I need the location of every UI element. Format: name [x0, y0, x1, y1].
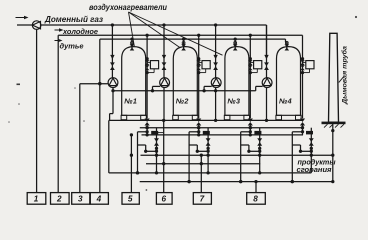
- svg-text:8: 8: [253, 195, 258, 204]
- wire: bypass elbow A heater 4: [292, 130, 304, 133]
- flow arrow into blast furnace gas line: [16, 16, 29, 20]
- dome valve heater 3: [233, 42, 238, 51]
- svg-text:2: 2: [56, 195, 62, 204]
- wire: foot pipe to headers heater 3: [249, 126, 252, 135]
- junction block heater 4: [306, 131, 313, 135]
- wire: fan suction riser: [153, 86, 161, 90]
- wire: fan 1 discharge down pipe: [111, 87, 114, 113]
- svg-text:6: 6: [161, 195, 166, 204]
- bypass drive box heater 1: [147, 61, 158, 73]
- label vozdukhonagrevateli (air heaters): [89, 3, 167, 12]
- wire: bypass elbow B heater 3: [239, 132, 242, 183]
- wire: bypass elbow C heater 2: [189, 144, 197, 146]
- svg-text:4: 4: [96, 195, 102, 204]
- svg-text:Доменный газ: Доменный газ: [44, 15, 103, 24]
- svg-text:дутье: дутье: [60, 42, 84, 51]
- wire: dome pipe heater 3: [234, 39, 236, 48]
- label №2: [175, 97, 189, 106]
- position box 1: [27, 193, 46, 205]
- wire: chimney downcomer: [331, 124, 334, 181]
- wire: hot-blast side pipe heater 1: [145, 35, 148, 118]
- wire: bypass elbow C heater 4: [292, 144, 300, 146]
- wire: header M5: [109, 171, 311, 174]
- flow arrowhead gas heater 3: [213, 55, 217, 60]
- svg-text:сгорания: сгорания: [297, 165, 333, 174]
- bypass drive box heater 3: [250, 61, 262, 73]
- leader lines from air-heaters label: [129, 12, 223, 55]
- junction block heater 1: [151, 131, 158, 135]
- wire: stub to box6 riser: [157, 132, 164, 134]
- flow arrow blast: [55, 39, 63, 43]
- wire: bypass elbow A heater 1: [138, 130, 149, 133]
- wire: gas main L1: [41, 23, 267, 26]
- flow arrowhead gas heater 2: [162, 55, 166, 60]
- wire: combustion air manifold: [113, 89, 256, 92]
- position box 3: [72, 193, 90, 205]
- smoke shutoff valve under heater 2: [196, 119, 201, 126]
- position box 7: [193, 193, 211, 205]
- smoke valve heater 1: [154, 138, 159, 145]
- flow arrow cold blast: [55, 28, 64, 32]
- wire: fan 1 suction line: [80, 82, 108, 85]
- wire: header M4: [146, 162, 260, 165]
- svg-text:№4: №4: [278, 97, 292, 106]
- wire: gas drop pipe heater 4: [266, 25, 268, 78]
- position box 5: [122, 193, 139, 205]
- wire: L3 elbow down to heater 4 dome valve: [285, 39, 287, 42]
- wire: bypass elbow D heater 3: [247, 145, 250, 153]
- wire: header M6: [140, 180, 335, 183]
- wire: fan 1 discharge jog: [110, 114, 113, 121]
- wire: smoke valve pipe heater 4: [310, 128, 313, 173]
- label Dymovaya truba (chimney): [341, 46, 349, 105]
- wire: dome pipe heater 4: [286, 42, 288, 48]
- chimney foundation: [322, 122, 346, 128]
- svg-text:5: 5: [128, 195, 133, 204]
- wire: bypass elbow D heater 1: [144, 145, 147, 153]
- label №1: [123, 97, 137, 106]
- svg-text:7: 7: [200, 195, 205, 204]
- position box 6: [156, 193, 172, 205]
- wire: left loop drop: [108, 120, 110, 172]
- position box 2: [51, 193, 70, 205]
- svg-text:3: 3: [78, 195, 83, 204]
- shutoff valves on side pipe heater 2: [196, 60, 201, 70]
- wire: bypass elbow D heater 2: [196, 145, 199, 153]
- label Domenny gaz (blast furnace gas): [44, 15, 103, 24]
- wire: smoke valve pipe heater 2: [206, 128, 209, 173]
- wire: bypass elbow E heater 4: [301, 150, 313, 153]
- svg-text:воздухонагреватели: воздухонагреватели: [89, 3, 167, 12]
- wire: fan 2 discharge down pipe: [163, 87, 165, 120]
- junction block heater 2: [203, 131, 210, 135]
- smoke shutoff valve under heater 4: [300, 119, 305, 126]
- flow arrowhead gas heater 4: [264, 55, 268, 60]
- shutoff valves on side pipe heater 3: [248, 60, 253, 70]
- wire: inlet to damper: [17, 24, 32, 26]
- wire: riser to box 3: [79, 84, 81, 193]
- wire: under-feet manifold: [109, 119, 303, 122]
- wire: bypass elbow B heater 4: [291, 132, 294, 183]
- label dutyo (blast): [60, 42, 84, 51]
- wire: hot-blast side pipe heater 2: [197, 35, 200, 118]
- wire: L2 elbow down to box 2: [57, 35, 59, 192]
- wire: hot-blast side pipe heater 3: [249, 35, 252, 118]
- air heater vessel №1: [121, 47, 146, 120]
- wire: hot-blast side pipe heater 4: [301, 35, 304, 118]
- wire: bypass elbow C heater 1: [138, 144, 146, 146]
- wire: bypass elbow E heater 2: [197, 150, 209, 153]
- position box 4: [90, 193, 108, 205]
- wire: smoke valve pipe heater 1: [155, 128, 158, 173]
- svg-text:№1: №1: [123, 97, 137, 106]
- svg-text:№2: №2: [175, 97, 189, 106]
- wire: foot pipe to headers heater 2: [197, 126, 200, 135]
- wire: fan suction riser: [256, 86, 263, 90]
- wire: L3 elbow down (riser to box 4): [98, 39, 101, 193]
- wire: header M2: [142, 133, 304, 136]
- position box 8: [247, 193, 266, 205]
- air heater vessel №3: [224, 47, 249, 120]
- scan edge artifacts: [8, 16, 357, 191]
- junction block heater 3: [254, 131, 261, 135]
- wire: smoke valve pipe heater 3: [258, 128, 261, 173]
- bypass drive box heater 2: [199, 61, 211, 73]
- combustion fan (pump) heater 4: [262, 78, 272, 88]
- wire: gas main elbow down to heater 4: [266, 25, 268, 56]
- combustion fan (pump) heater 3: [211, 78, 221, 88]
- wire: riser to box 5: [130, 133, 133, 192]
- bypass drive box heater 4: [303, 61, 315, 73]
- wire: foot pipe to headers heater 1: [145, 126, 148, 135]
- wire: gas drop pipe heater 3: [215, 25, 217, 78]
- wire: bypass elbow E heater 1: [146, 150, 158, 153]
- wire: gas drop pipe heater 1: [111, 25, 113, 78]
- leader line chimney label: [339, 77, 344, 83]
- svg-text:холодное: холодное: [62, 27, 98, 36]
- wire: bypass elbow A heater 2: [189, 130, 200, 133]
- wire: fan 3 discharge down pipe: [214, 87, 217, 122]
- wire: smoke flue main: [130, 154, 333, 157]
- wire: bypass elbow E heater 3: [249, 150, 261, 153]
- wire: hot blast main L3: [100, 37, 286, 40]
- burner shutoff valve heater 1: [110, 62, 115, 70]
- label produkty sgoraniya (combustion products): [297, 157, 337, 174]
- damper valve (blast furnace gas inlet): [32, 21, 41, 30]
- label №3: [226, 97, 240, 106]
- chimney (dymovaya truba): [329, 33, 339, 122]
- wire: bypass elbow B heater 1: [136, 132, 139, 175]
- wire: bypass elbow D heater 4: [299, 145, 302, 153]
- wire: riser to box 8: [255, 182, 257, 193]
- wire: riser to box 7: [200, 154, 203, 193]
- combustion fan (pump) heater 2: [160, 78, 170, 88]
- svg-text:1: 1: [34, 195, 39, 204]
- wire: foot pipe to headers heater 4: [301, 126, 304, 135]
- wire: riser to box 6: [163, 120, 165, 192]
- air heater vessel №2: [173, 47, 198, 120]
- label №4: [278, 97, 292, 106]
- wire: bypass elbow C heater 3: [241, 144, 249, 146]
- dome valve heater 1: [130, 42, 135, 51]
- burner shutoff valve heater 4: [264, 62, 269, 70]
- smoke valve heater 3: [257, 138, 262, 145]
- wire: dome pipe heater 2: [183, 39, 185, 48]
- wire: riser to box 1: [36, 29, 38, 192]
- shutoff valves on side pipe heater 4: [300, 60, 305, 70]
- smoke shutoff valve under heater 3: [248, 119, 253, 126]
- svg-text:№3: №3: [226, 97, 240, 106]
- wire: fan suction riser: [204, 86, 212, 90]
- dome valve heater 4: [285, 42, 290, 51]
- svg-text:Дымовая труба: Дымовая труба: [341, 46, 349, 105]
- wire: cold blast main L2: [58, 34, 302, 37]
- shutoff valves on side pipe heater 1: [145, 60, 150, 70]
- wire: fan 4 discharge down pipe: [265, 87, 268, 122]
- wire: bypass elbow A heater 3: [241, 130, 252, 133]
- flow arrowhead gas heater 1: [110, 55, 114, 60]
- wire: bypass elbow B heater 2: [187, 132, 190, 183]
- smoke valve heater 2: [206, 138, 211, 145]
- wire: dome pipe heater 1: [131, 39, 133, 48]
- dome valve heater 2: [181, 42, 186, 51]
- air heater vessel №4: [276, 47, 301, 120]
- smoke shutoff valve under heater 1: [145, 119, 150, 126]
- burner shutoff valve heater 3: [213, 62, 218, 70]
- wire: gas drop pipe heater 2: [163, 25, 165, 78]
- smoke valve heater 4: [309, 138, 314, 145]
- burner shutoff valve heater 2: [162, 62, 167, 70]
- combustion fan (pump) heater 1: [108, 78, 118, 88]
- label kholodnoye (cold): [62, 27, 98, 36]
- wire: smoke-valve header M1: [140, 126, 302, 129]
